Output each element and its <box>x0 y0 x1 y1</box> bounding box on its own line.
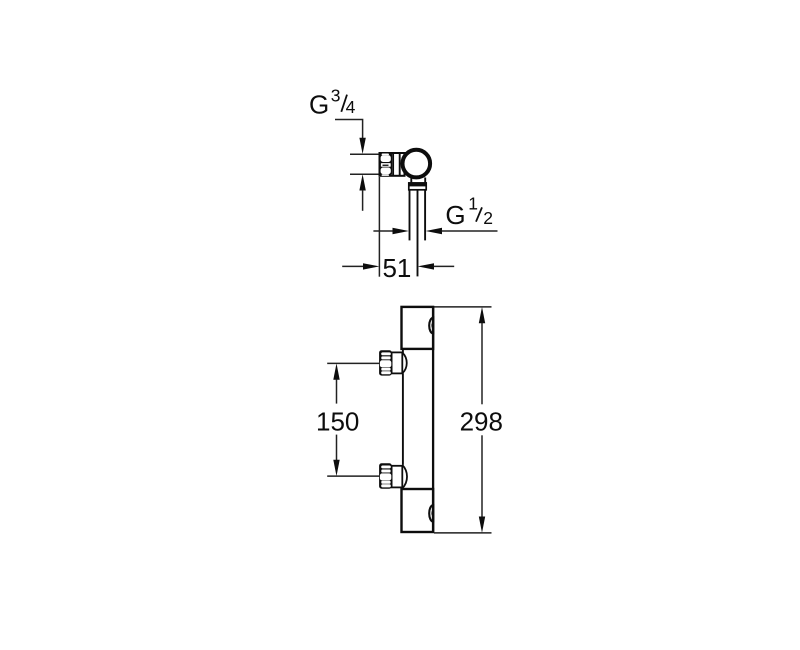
298 top extension line <box>434 306 492 308</box>
51 dim line with outside arrows <box>342 265 363 267</box>
lower inlet fitting: hex union nut <box>379 463 392 488</box>
pipe centerline / extension for 51 dim <box>417 190 419 277</box>
G 1/2 right arrow pointing left at pipe <box>426 228 442 234</box>
150 dimension line upper segment with up arrow <box>333 363 339 379</box>
hex nut (top view, black with white facets) <box>379 152 392 176</box>
upper extension line (nut top) <box>350 153 379 155</box>
collar ring below neck <box>409 183 426 190</box>
divider line nut/collar <box>392 154 394 175</box>
body bar right edge <box>432 307 434 532</box>
svg-text:298: 298 <box>460 407 503 437</box>
divider line collar/valve <box>399 154 401 175</box>
150 top extension line (upper inlet centerline) <box>327 362 379 364</box>
svg-text:G: G <box>445 200 465 230</box>
up arrow below lower extension line <box>359 174 365 190</box>
298 bottom extension line <box>434 532 492 534</box>
51 dim left extension line <box>378 177 380 277</box>
upper inlet fitting: collar <box>392 352 403 373</box>
pipe (shower outlet, G 1/2) <box>409 190 411 241</box>
upper inlet fitting: hex union nut <box>379 350 392 375</box>
fitting block (top view body of wall union) <box>380 153 405 176</box>
svg-text:4: 4 <box>346 97 356 117</box>
svg-text:2: 2 <box>483 208 493 228</box>
svg-text:150: 150 <box>316 407 359 437</box>
bar left edge segments between fittings <box>402 349 404 353</box>
150 dimension line lower segment with down arrow <box>336 435 338 461</box>
svg-text:G: G <box>309 89 329 119</box>
150 bottom extension line (lower inlet centerline) <box>327 475 379 477</box>
upper inlet fitting: escutcheon dome <box>402 353 406 374</box>
298 dimension line upper segment with up arrow <box>479 307 485 323</box>
lower extension line (nut bottom) <box>350 173 379 175</box>
valve body circle <box>403 150 431 178</box>
hose outlet notch on top cap right edge <box>429 318 433 334</box>
G 1/2 left arrow pointing right at pipe <box>373 230 393 232</box>
hose outlet notch on bottom cap right edge <box>429 505 433 521</box>
top cap of bar <box>402 307 434 349</box>
bottom cap of bar <box>402 489 434 532</box>
down arrow to top extension line <box>359 138 365 154</box>
298 dimension line lower segment with down arrow <box>481 435 483 517</box>
neck below circle <box>410 178 412 185</box>
lower inlet fitting: escutcheon dome <box>402 465 407 489</box>
svg-text:51: 51 <box>382 253 411 283</box>
leader line from G 3/4 <box>335 120 363 139</box>
svg-text:3: 3 <box>331 85 341 105</box>
svg-text:1: 1 <box>468 194 478 214</box>
lower inlet fitting: collar <box>392 466 403 488</box>
